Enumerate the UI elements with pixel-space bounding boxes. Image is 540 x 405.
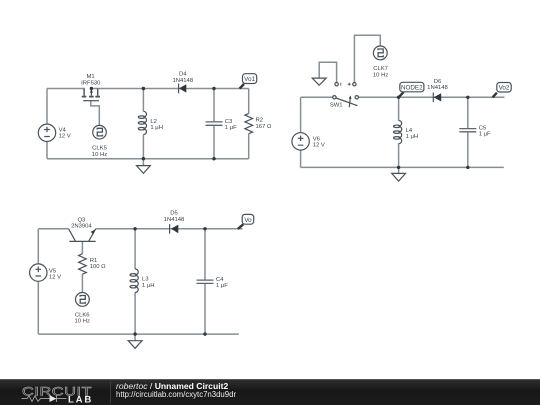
svg-text:CLK7: CLK7	[373, 66, 388, 72]
svg-text:1 μF: 1 μF	[216, 283, 228, 289]
svg-text:CLK5: CLK5	[92, 146, 107, 152]
svg-text:2N3904: 2N3904	[71, 224, 92, 230]
svg-text:12 V: 12 V	[59, 134, 71, 140]
svg-text:D4: D4	[179, 72, 187, 78]
svg-text:Q3: Q3	[77, 218, 86, 224]
svg-text:1N4148: 1N4148	[164, 217, 185, 223]
svg-text:SW1: SW1	[330, 103, 343, 109]
svg-text:1N4148: 1N4148	[427, 85, 448, 91]
svg-text:V6: V6	[313, 137, 321, 143]
svg-text:10 Hz: 10 Hz	[373, 73, 388, 79]
svg-text:12 V: 12 V	[49, 275, 61, 281]
svg-text:C4: C4	[216, 277, 224, 283]
svg-text:10 Hz: 10 Hz	[75, 319, 90, 325]
svg-text:LAB: LAB	[68, 394, 93, 405]
svg-text:IRF530: IRF530	[81, 80, 101, 86]
svg-text:Vo1: Vo1	[244, 76, 255, 83]
svg-text:12 V: 12 V	[313, 143, 325, 149]
svg-text:1 μH: 1 μH	[142, 283, 155, 289]
svg-text:R2: R2	[256, 118, 264, 124]
svg-text:D5: D5	[170, 211, 178, 217]
svg-text:167 Ω: 167 Ω	[256, 124, 272, 130]
svg-text:L2: L2	[150, 119, 157, 125]
svg-text:100 Ω: 100 Ω	[90, 264, 106, 270]
svg-text:NODE2: NODE2	[401, 85, 423, 92]
svg-text:CLK6: CLK6	[75, 312, 90, 318]
svg-text:L3: L3	[142, 277, 149, 283]
svg-text:1 μF: 1 μF	[479, 132, 491, 138]
svg-text:Vo: Vo	[244, 217, 252, 224]
svg-text:M1: M1	[87, 74, 95, 80]
svg-text:http://circuitlab.com/cxytc7n3: http://circuitlab.com/cxytc7n3du9dr	[116, 390, 236, 399]
svg-text:1N4148: 1N4148	[172, 78, 193, 84]
svg-text:C5: C5	[479, 125, 487, 131]
svg-text:C3: C3	[225, 119, 233, 125]
svg-text:L4: L4	[406, 128, 413, 134]
svg-text:V4: V4	[59, 128, 67, 134]
svg-text:1 μF: 1 μF	[225, 125, 237, 131]
svg-text:D6: D6	[434, 79, 442, 85]
svg-text:V5: V5	[49, 268, 57, 274]
svg-text:1 μH: 1 μH	[150, 125, 163, 131]
svg-text:1 μH: 1 μH	[406, 134, 419, 140]
svg-text:Vo2: Vo2	[499, 85, 510, 92]
svg-text:10 Hz: 10 Hz	[92, 152, 107, 158]
svg-text:R1: R1	[90, 258, 98, 264]
